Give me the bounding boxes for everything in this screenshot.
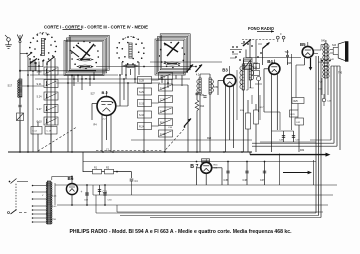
speaker voice coil (333, 48, 338, 55)
wire collector d (56, 82, 160, 84)
svg-text:+: + (99, 190, 101, 194)
tube B3 (224, 75, 236, 87)
svg-text:T40: T40 (338, 72, 343, 75)
IFT2 links (243, 59, 250, 61)
IFT2 S37 (249, 64, 251, 80)
power transformer core (47, 181, 51, 224)
wire collector a (20, 70, 96, 72)
wire lead top2 (150, 61, 222, 63)
wire lead top1 (96, 66, 196, 68)
switch fono poles (276, 36, 279, 39)
svg-text:R14: R14 (200, 106, 205, 108)
switch fono lever2 (263, 43, 270, 49)
wire B5 pins (304, 58, 306, 65)
svg-text:R32: R32 (300, 150, 305, 152)
switch S2 wafer frames (64, 41, 104, 76)
wire antenna down (19, 43, 21, 152)
wire S17 stubs (19, 97, 21, 104)
wire pot tail (247, 70, 249, 91)
resistor R28b (295, 118, 304, 125)
svg-text:C45: C45 (224, 179, 229, 182)
cap C49 (293, 131, 295, 142)
cap C13 (99, 185, 101, 195)
wire fono verts (249, 40, 251, 58)
wire input riser (27, 57, 29, 152)
switch S2 contacts (98, 56, 100, 58)
cap C54 (104, 185, 106, 205)
svg-text:CORTE I - CORTE II - CORTE III: CORTE I - CORTE II - CORTE III - CORTE I… (44, 25, 149, 31)
trimmer arrows C33 C34 (187, 65, 194, 73)
mains switch lower (8, 212, 10, 214)
trimmer bank B C21-C31 (159, 73, 173, 80)
bus arrow (250, 154, 327, 156)
wire r1r2 (83, 171, 93, 173)
tube B5 (302, 46, 313, 57)
IFT2 S35 (242, 64, 244, 90)
IFT1 S32 (209, 78, 211, 94)
wire hv vert B (318, 56, 320, 216)
wire lead top3 (246, 57, 301, 59)
resistor R23 (290, 110, 299, 117)
ground (5, 44, 12, 46)
diode load (257, 77, 261, 81)
gang diagonal right (164, 129, 184, 152)
wire det spine (187, 85, 189, 152)
wire rail y205 (57, 204, 328, 206)
svg-text:S27: S27 (91, 93, 96, 96)
speaker cone (338, 42, 345, 61)
wire mid h2 (92, 119, 131, 121)
chassis bus (8, 151, 252, 153)
volume control pot (244, 58, 253, 70)
svg-text:S41: S41 (321, 40, 326, 43)
wire right top stubs (331, 65, 340, 67)
svg-text:S.28: S.28 (139, 79, 145, 82)
svg-text:C46: C46 (243, 179, 248, 182)
wire collector c (35, 78, 190, 80)
cap C44 (322, 98, 326, 102)
svg-text:S.18: S.18 (37, 71, 43, 74)
speaker magnet (345, 41, 348, 62)
power transformer leads (33, 185, 48, 187)
wire B7 pins (197, 167, 201, 169)
node fono (232, 46, 234, 48)
wire mid h1 (131, 139, 252, 141)
svg-text:B 7: B 7 (190, 164, 198, 170)
svg-text:S.27: S.27 (37, 108, 43, 111)
wire det vert (196, 92, 198, 100)
choke S11 (202, 159, 210, 163)
wire rail y217 (150, 217, 321, 219)
tube B4 (269, 63, 280, 74)
wire B4 pins (271, 74, 273, 152)
wire caps row (272, 130, 294, 132)
switch M1 index arc (37, 33, 50, 35)
switch M3 contact ring (141, 57, 143, 59)
wire B2 pins (101, 115, 103, 152)
switch M3 rotor slot (129, 43, 132, 58)
wire bank spines (143, 84, 145, 153)
svg-text:C.10: C.10 (37, 121, 43, 124)
wire B2 couple (116, 105, 128, 107)
node leads (143, 66, 145, 68)
cap C47 (264, 162, 266, 186)
switch fono lever1 (244, 40, 252, 46)
wire xfmr top (51, 177, 53, 181)
wire hv vert C (320, 58, 322, 218)
switch M1 levers (31, 59, 38, 64)
wire plate run2 (333, 66, 335, 143)
switch M1 rotor slot (41, 39, 44, 56)
wire B6 top (71, 177, 73, 184)
wire rail y213b (96, 212, 316, 214)
wire S2 drops (73, 76, 75, 87)
wire cross right1 (252, 142, 334, 144)
wire cross right2 (252, 145, 337, 147)
wire M3 drops (121, 62, 123, 75)
svg-text:PHILIPS RADIO - Modd. BI 594: PHILIPS RADIO - Modd. BI 594 A e FI 663 … (70, 229, 293, 235)
wire S4 drops (161, 75, 163, 83)
tuned coils column S18-S27 (44, 67, 58, 75)
resistor R14 zigzag (195, 100, 199, 111)
wire grid drop (82, 152, 84, 172)
feedback arrow (283, 172, 309, 174)
switch S2 rotor wafers (77, 58, 93, 61)
resistor boxes det (246, 113, 251, 129)
wire rail y195 (93, 194, 333, 196)
wire y163 nodes (227, 161, 229, 163)
bus nodes (19, 151, 21, 153)
wire S41 leads (325, 40, 327, 44)
svg-text:R12: R12 (254, 63, 259, 65)
power transformer primary (46, 182, 47, 184)
wire rail y185 (55, 184, 337, 186)
wire B3 pins (225, 86, 227, 153)
switch S4 spokes (164, 43, 178, 52)
IFT1 links (200, 73, 210, 75)
switch S2 spokes (76, 45, 90, 56)
trimmer C3 (17, 113, 24, 121)
gang diagonal left (38, 128, 76, 152)
svg-text:S.12: S.12 (32, 131, 37, 133)
svg-text:S.21: S.21 (37, 83, 43, 86)
tube B2 (97, 97, 116, 116)
power transformer secondary (51, 182, 52, 184)
wire plate run4 (339, 66, 341, 150)
coil S17 (19, 79, 22, 97)
switch M3 rotor wafer (123, 65, 138, 68)
cap C45 (227, 162, 229, 186)
svg-text:R20: R20 (207, 138, 212, 140)
gang dashes bus (96, 149, 163, 151)
phono input jack (7, 38, 11, 42)
svg-text:C.19: C.19 (47, 131, 52, 133)
svg-text:S43: S43 (332, 45, 337, 47)
resistor R1 (93, 169, 102, 174)
wire plate run1 (330, 66, 332, 140)
wire plate run3 (336, 66, 338, 146)
antenna coupling contacts (20, 53, 27, 55)
volume pot arrow (184, 119, 191, 127)
svg-text:S.24: S.24 (37, 96, 43, 99)
svg-text:C31: C31 (200, 95, 205, 97)
cap C4 (130, 178, 134, 180)
switch S4 contacts (183, 60, 185, 62)
fono contact marks (243, 41, 245, 43)
node input bus (19, 70, 21, 72)
tube B7 (201, 162, 212, 173)
switch fono dashes (242, 39, 276, 41)
wire M1 drops (34, 60, 36, 71)
coil S15 (45, 127, 57, 135)
cap C46 (246, 162, 248, 186)
mains switch upper (9, 181, 11, 183)
wire rail y215 (120, 215, 319, 217)
svg-text:T40: T40 (285, 51, 290, 54)
wire collector b (30, 74, 118, 76)
wire grid long (83, 161, 316, 163)
node sw2 (73, 78, 75, 80)
switch M3 index arc (125, 37, 137, 39)
resistor R25 (292, 98, 304, 104)
cap C48 (283, 131, 285, 142)
switch M1 contact ring (55, 51, 57, 53)
switch link dashed (15, 184, 17, 211)
IFT1 S30 (199, 78, 201, 94)
cap C53 (86, 185, 88, 205)
coil S12 (31, 127, 42, 135)
coil bank A S28-S34 (138, 77, 152, 84)
output transformer S41 (325, 44, 328, 79)
wire b4 couple (295, 65, 297, 98)
svg-text:R25: R25 (294, 101, 299, 103)
svg-text:B 2: B 2 (102, 90, 109, 95)
svg-text:+: + (81, 190, 83, 194)
switch S4 wafer frames (155, 39, 185, 75)
svg-text:FONO RADIO: FONO RADIO (248, 26, 274, 31)
wire coil column spine (46, 67, 48, 125)
wire xfmr right (54, 183, 56, 205)
avc arrow (310, 58, 312, 68)
resistor R2 (105, 169, 114, 174)
wire det verts2 (247, 100, 249, 113)
svg-text:B3: B3 (222, 68, 228, 73)
wire rail y212 (117, 211, 323, 213)
svg-text:S17: S17 (8, 84, 13, 88)
tube B6 (66, 183, 77, 194)
antenna A1 (17, 35, 23, 41)
feedback box (280, 154, 314, 186)
svg-text:C47: C47 (260, 179, 265, 182)
wire hv vert A (315, 56, 317, 213)
wire B6 bottom (71, 195, 73, 205)
switch S4 rotor wafer (164, 62, 180, 65)
wire column tails (37, 121, 39, 127)
